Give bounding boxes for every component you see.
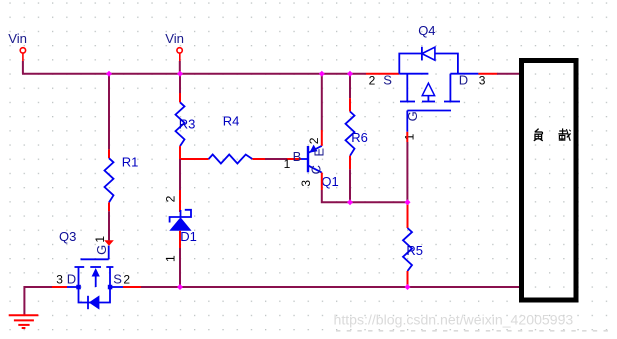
wire R6 branch upper xyxy=(349,74,351,98)
svg-text:E: E xyxy=(312,148,327,157)
svg-text:1: 1 xyxy=(93,236,107,243)
svg-text:https://blog.csdn.net/weixin_4: https://blog.csdn.net/weixin_42005993 xyxy=(334,312,574,328)
junction at R6 bottom xyxy=(347,199,353,205)
body diode of Q3 xyxy=(79,287,111,303)
wire mid rail xyxy=(350,201,408,203)
svg-text:R4: R4 xyxy=(223,114,240,129)
pin Q4 gate lower xyxy=(406,132,408,142)
wire top rail into Q4 source xyxy=(366,73,399,75)
node S of Q3 xyxy=(108,285,113,290)
pin Q3 drain outer xyxy=(52,286,67,288)
junction at R5 top xyxy=(405,199,411,205)
svg-text:B: B xyxy=(293,149,302,164)
port Vin (middle) xyxy=(165,31,184,61)
junction at R3 top xyxy=(177,71,183,77)
mosfet Q4 (P-channel) xyxy=(369,23,486,140)
resistor R4 xyxy=(180,114,265,164)
junction at Q1 emitter xyxy=(319,71,325,77)
watermark dotted underline xyxy=(336,330,613,332)
wire top rail xyxy=(22,73,366,75)
svg-text:R1: R1 xyxy=(122,155,139,170)
wire Q4 drain to load xyxy=(497,73,520,75)
svg-text:2: 2 xyxy=(307,137,321,144)
resistor R3 xyxy=(176,93,196,159)
wire Q1 emitter to top rail xyxy=(321,74,323,130)
wire R6 to mid rail xyxy=(349,169,351,202)
load label 载 xyxy=(558,128,570,140)
svg-text:2: 2 xyxy=(369,74,376,88)
svg-text:2: 2 xyxy=(123,273,130,287)
svg-text:G: G xyxy=(94,245,109,255)
svg-text:Q1: Q1 xyxy=(321,174,338,189)
resistor R6 xyxy=(346,98,368,169)
body diode of Q4 xyxy=(399,54,458,74)
pin Q4 drain xyxy=(478,73,497,75)
ground xyxy=(9,315,39,328)
svg-text:3: 3 xyxy=(56,272,63,286)
pin Q3 source outer xyxy=(123,286,141,288)
wire R4 to Q1 base xyxy=(265,158,287,160)
svg-text:Q4: Q4 xyxy=(418,23,435,38)
svg-text:D1: D1 xyxy=(180,229,197,244)
svg-text:S: S xyxy=(383,72,392,87)
load box xyxy=(522,61,577,301)
diode D1 (zener) xyxy=(163,190,197,262)
svg-text:1: 1 xyxy=(284,157,291,171)
wire R3 branch upper xyxy=(179,74,181,93)
transistor Q1 (PNP) xyxy=(284,137,339,189)
junction at R1 top xyxy=(106,71,112,77)
wire Q4 gate to mid rail xyxy=(406,142,408,202)
wire Q1 collector to mid rail xyxy=(322,190,350,202)
wire bottom rail xyxy=(141,286,520,288)
resistor R5 xyxy=(403,203,423,287)
wire Vin1 drop xyxy=(22,61,24,74)
junction at D1 bottom xyxy=(177,284,183,290)
svg-text:Vin: Vin xyxy=(165,31,184,46)
pin Q1 collector xyxy=(321,173,323,190)
svg-text:2: 2 xyxy=(163,195,177,202)
svg-text:Vin: Vin xyxy=(8,31,27,46)
svg-text:3: 3 xyxy=(299,180,313,187)
svg-text:S: S xyxy=(113,272,122,287)
wire R1 to Q3 gate xyxy=(108,211,110,240)
pin Q1 emitter xyxy=(321,130,323,146)
svg-text:R6: R6 xyxy=(351,130,368,145)
wire D1 branch xyxy=(179,159,181,190)
wire Vin2 drop xyxy=(179,61,181,74)
junction at R5 bottom xyxy=(405,284,411,290)
mosfet Q3 (N-channel) xyxy=(56,229,130,309)
svg-text:D: D xyxy=(459,73,468,88)
port Vin (left) xyxy=(8,31,27,61)
svg-text:R5: R5 xyxy=(406,243,423,258)
svg-text:Q3: Q3 xyxy=(59,229,76,244)
wire D1 to bottom rail xyxy=(179,248,181,287)
junction at R6 top xyxy=(347,71,353,77)
wire bottom rail left xyxy=(24,287,52,315)
node D of Q3 xyxy=(76,285,81,290)
svg-text:D: D xyxy=(67,271,76,286)
svg-text:1: 1 xyxy=(163,255,177,262)
svg-text:R3: R3 xyxy=(179,116,196,131)
pin Q1 base lead xyxy=(287,158,301,160)
wire end arrow at Q3 gate xyxy=(104,240,114,246)
load label 负 xyxy=(534,129,543,141)
svg-text:3: 3 xyxy=(479,74,486,88)
svg-text:G: G xyxy=(405,111,420,121)
resistor R1 xyxy=(105,149,139,211)
wire R1 branch upper xyxy=(108,74,110,150)
svg-text:1: 1 xyxy=(403,133,417,140)
